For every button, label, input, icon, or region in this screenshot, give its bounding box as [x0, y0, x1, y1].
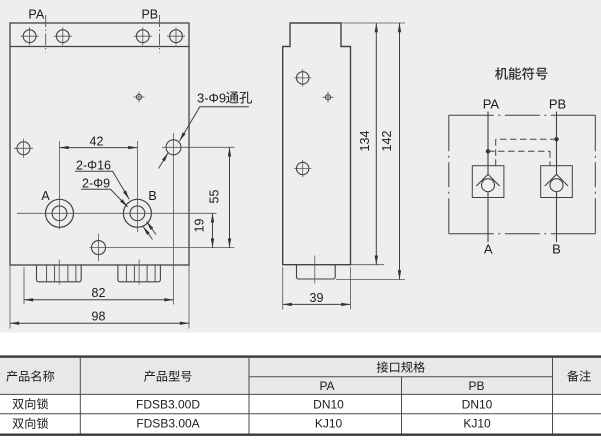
svg-text:FDSB3.00A: FDSB3.00A — [136, 417, 199, 431]
small bottom hole — [92, 241, 106, 255]
dimension 142 — [380, 23, 400, 280]
right hole horizontal centerline / 55 extension — [162, 146, 235, 148]
svg-text:A: A — [484, 242, 493, 257]
flange mounting hole 1 — [21, 27, 39, 45]
bottom extension line for 142 — [336, 279, 405, 281]
check valve left box — [472, 166, 504, 198]
svg-text:DN10: DN10 — [462, 397, 493, 411]
side view small center mark — [323, 92, 334, 103]
hole A (phi16/phi9) — [46, 199, 74, 227]
svg-text:2-Φ9: 2-Φ9 — [82, 176, 110, 190]
header cell product name — [6, 370, 54, 381]
front view body outline — [10, 23, 189, 265]
svg-text:PB: PB — [549, 97, 566, 112]
svg-text:PA: PA — [483, 97, 500, 112]
top extension line for 134/142 — [341, 22, 405, 24]
side view upper hole — [294, 69, 311, 86]
39 right extension — [350, 267, 352, 310]
PA centerline tick — [45, 15, 47, 53]
A/B horizontal centerline — [17, 212, 217, 214]
98 left extension line — [9, 265, 11, 329]
label 3-phi9 through hole — [159, 91, 253, 169]
row1 product name — [12, 398, 48, 409]
svg-text:PA: PA — [28, 8, 44, 22]
PB line — [556, 112, 558, 243]
header cell interface spec — [377, 361, 425, 372]
dimension 82 — [24, 286, 174, 300]
header cell remarks — [567, 370, 591, 381]
svg-text:39: 39 — [310, 291, 324, 305]
left through hole — [14, 139, 33, 158]
svg-text:2-Φ16: 2-Φ16 — [76, 158, 111, 172]
side view hex plug — [297, 256, 336, 284]
svg-text:134: 134 — [358, 131, 372, 152]
dimension 19 — [193, 213, 213, 247]
svg-text:A: A — [41, 189, 50, 203]
small center mark — [134, 92, 145, 103]
right hole vertical centerline / 82 extension — [173, 133, 175, 305]
table header background — [0, 357, 601, 395]
dimension 42 — [60, 135, 138, 149]
dimension 39 — [283, 291, 351, 305]
svg-text:DN10: DN10 — [313, 397, 344, 411]
flange mounting hole 4 — [167, 27, 185, 45]
dimension 55 — [208, 147, 230, 247]
label 2-phi9 with leader — [81, 176, 153, 239]
hole B (phi16/phi9) — [123, 199, 151, 227]
table bottom border — [0, 434, 601, 436]
svg-text:42: 42 — [90, 135, 104, 149]
svg-text:55: 55 — [208, 190, 222, 204]
table top border — [0, 355, 601, 357]
extension line through B — [136, 141, 138, 232]
dimension 134 — [358, 23, 377, 265]
98 right extension line — [188, 265, 190, 329]
label 2-phi16 with leader — [75, 158, 156, 234]
extension line through A — [59, 141, 61, 230]
dimension 98 — [10, 309, 189, 323]
svg-text:PB: PB — [468, 379, 484, 393]
svg-text:142: 142 — [380, 131, 394, 152]
pilot line from PB to left valve — [496, 139, 557, 166]
small hole vertical centerline — [98, 234, 100, 262]
check valve left symbol — [476, 174, 499, 191]
symbol dashed enclosure — [449, 115, 596, 234]
junction dot on PB — [554, 137, 558, 141]
row2 product name — [12, 418, 48, 429]
title ji-neng-fu-hao — [495, 67, 547, 79]
side view lower hole — [294, 160, 311, 177]
table grid lines — [0, 358, 601, 434]
check valve right symbol — [545, 174, 568, 191]
bottom extension line for 134 — [351, 264, 385, 266]
svg-text:19: 19 — [193, 219, 207, 233]
svg-text:B: B — [552, 242, 561, 257]
check valve right box — [541, 166, 573, 198]
PA line — [487, 112, 489, 243]
flange mounting hole 2 — [54, 27, 72, 45]
right hex plugs — [118, 260, 160, 285]
right through hole — [166, 140, 181, 155]
svg-text:B: B — [148, 189, 156, 203]
svg-text:98: 98 — [92, 309, 106, 323]
pilot line from PA to right valve — [488, 151, 550, 165]
svg-text:KJ10: KJ10 — [463, 417, 491, 431]
drawing area background — [0, 0, 601, 333]
svg-text:82: 82 — [92, 286, 106, 300]
side view outline — [283, 23, 351, 265]
82 left extension line — [23, 267, 25, 305]
svg-text:PA: PA — [319, 379, 334, 393]
junction dot on PA — [486, 149, 490, 153]
PB centerline tick — [159, 15, 161, 53]
header cell product model — [144, 370, 192, 381]
svg-text:3-Φ9: 3-Φ9 — [197, 91, 226, 106]
svg-text:FDSB3.00D: FDSB3.00D — [136, 397, 200, 411]
left hex plugs — [37, 260, 82, 285]
svg-text:KJ10: KJ10 — [315, 417, 343, 431]
svg-text:PB: PB — [141, 8, 158, 22]
flange mounting hole 3 — [134, 27, 152, 45]
small hole horizontal centerline / 55+19 extension — [90, 247, 235, 249]
39 left extension — [282, 267, 284, 310]
